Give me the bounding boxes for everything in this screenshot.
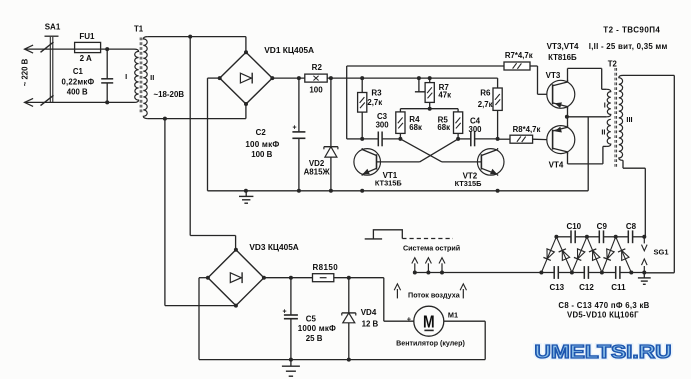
label VT3 VT4 group	[547, 42, 579, 51]
label T2 I	[604, 100, 606, 109]
svg-text:R7*4,7к: R7*4,7к	[505, 51, 533, 60]
svg-text:~18-20В: ~18-20В	[154, 90, 185, 99]
transformer T1 core	[140, 38, 142, 115]
label needle system	[403, 244, 460, 253]
watermark umeltsi.ru	[535, 342, 672, 362]
label C1 volt	[67, 88, 88, 97]
air flow arrow left	[394, 284, 400, 299]
svg-text:C13: C13	[549, 283, 564, 292]
wire VT4 collector to T2-II	[568, 146, 607, 164]
wire to VD3 top	[190, 37, 235, 250]
wire T2-III bottom to multiplier	[623, 160, 645, 237]
svg-text:2,7к: 2,7к	[367, 98, 382, 107]
capacitor C13	[554, 266, 558, 279]
label R6 value	[478, 100, 493, 109]
needle arrow 3	[439, 258, 445, 275]
svg-text:300: 300	[376, 120, 390, 129]
capacitor C4	[458, 132, 498, 147]
label C4	[470, 117, 481, 126]
svg-text:C11: C11	[611, 283, 626, 292]
label C2	[256, 128, 267, 137]
transistor VT4	[547, 125, 575, 154]
label VT1	[383, 171, 398, 180]
label FU1	[79, 32, 95, 41]
transformer T2 winding III	[619, 75, 623, 160]
wire feedback VT1-R7*	[347, 66, 504, 139]
air flow arrow right	[460, 284, 466, 299]
label C3	[377, 112, 388, 121]
transformer T2 winding II	[607, 119, 611, 146]
svg-text:VD1 КЦ405А: VD1 КЦ405А	[264, 45, 314, 55]
label VT4	[549, 161, 564, 170]
label R6	[480, 89, 491, 98]
svg-text:КТ315Б: КТ315Б	[455, 179, 483, 188]
svg-text:300: 300	[468, 125, 482, 134]
svg-text:0,22мкФ: 0,22мкФ	[61, 77, 94, 86]
label C5	[306, 314, 317, 323]
svg-text:2,7к: 2,7к	[478, 100, 493, 109]
wire cross C4-VT1 base	[377, 139, 459, 162]
wire ground rail	[208, 189, 589, 193]
label C3 value	[376, 120, 390, 129]
svg-text:I: I	[125, 72, 127, 81]
transformer T1 primary	[134, 49, 139, 102]
bridge rectifier VD3	[206, 248, 266, 308]
node VT1 collector	[360, 137, 364, 141]
svg-text:R8150: R8150	[313, 263, 339, 272]
diode VD8	[587, 237, 602, 273]
label C13	[549, 283, 564, 292]
label KT816B	[548, 53, 577, 62]
spark gap SG1	[642, 237, 648, 273]
capacitor C5	[284, 278, 298, 360]
arrow mains bottom	[25, 98, 34, 106]
wire VD3 plus	[264, 276, 313, 280]
needle electrode symbol	[365, 230, 453, 239]
svg-text:I: I	[604, 100, 606, 109]
transformer T1 secondary	[143, 37, 148, 119]
label T1	[134, 25, 144, 34]
resistor R8*	[498, 135, 533, 143]
svg-text:68к: 68к	[437, 123, 450, 132]
label R3 value	[367, 98, 382, 107]
svg-text:400 В: 400 В	[67, 88, 88, 97]
label 2A	[80, 54, 92, 63]
svg-text:VT3,VT4: VT3,VT4	[547, 42, 579, 51]
wire multiplier bottom line	[415, 271, 647, 275]
arrow VT3 emitter	[555, 102, 562, 108]
svg-text:КТ315Б: КТ315Б	[375, 179, 403, 188]
resistor R2	[305, 74, 327, 82]
wire common to ground rail	[587, 117, 589, 191]
node C3-R4	[398, 137, 402, 141]
node R5-C4	[456, 137, 460, 141]
wire T2-III top to right	[623, 75, 674, 272]
wire VD3 minus	[199, 278, 209, 360]
wire L top 220V	[25, 48, 135, 50]
capacitor C12	[584, 266, 588, 279]
svg-text:1000 мкФ: 1000 мкФ	[298, 324, 336, 333]
resistor R7	[425, 78, 434, 109]
stub near R7	[415, 78, 425, 92]
label VD1	[264, 45, 314, 55]
label fan	[396, 340, 465, 348]
label C2 volt	[251, 150, 272, 159]
capacitor C10	[571, 230, 575, 243]
arrow mains top	[25, 45, 34, 53]
svg-text:III: III	[626, 115, 632, 124]
wire T1 sec bottom	[148, 104, 246, 121]
svg-text:100: 100	[309, 86, 323, 95]
resistor R4	[396, 109, 405, 139]
label T2 type	[603, 26, 660, 35]
wire VD1 minus	[208, 78, 220, 191]
label 18-20V	[154, 90, 185, 99]
label R5	[438, 115, 449, 124]
fuse FU1	[75, 42, 101, 52]
transformer T2 winding I	[607, 89, 611, 117]
label R4	[409, 115, 420, 124]
label T1 winding II	[150, 73, 154, 82]
svg-text:II: II	[601, 127, 605, 136]
svg-text:SA1: SA1	[45, 23, 61, 32]
svg-text:R3: R3	[371, 88, 382, 97]
label T1 winding I	[125, 72, 127, 81]
label T2 III	[626, 115, 632, 124]
svg-text:C1: C1	[73, 67, 84, 76]
wire R7*-VT3 base	[530, 66, 547, 94]
node VT3-VT4 common	[565, 107, 569, 129]
svg-text:M1: M1	[448, 310, 458, 319]
label T2	[608, 60, 618, 69]
svg-text:UMELTSI.RU: UMELTSI.RU	[535, 342, 672, 362]
label VD4	[361, 308, 377, 317]
svg-text:~ 220 В: ~ 220 В	[21, 58, 30, 86]
svg-text:25 В: 25 В	[306, 334, 323, 343]
svg-text:C9: C9	[597, 222, 608, 231]
resistor R7*	[504, 62, 530, 70]
svg-text:Вентилятор (кулер): Вентилятор (кулер)	[396, 340, 465, 348]
svg-text:C2: C2	[256, 128, 267, 137]
capacitor C2	[292, 78, 305, 191]
label R3	[371, 88, 382, 97]
wire motor right	[444, 321, 485, 359]
label R7 value	[438, 90, 451, 99]
label C5 value	[298, 324, 336, 333]
wire R8 to motor	[334, 276, 414, 322]
zener VD4	[342, 278, 356, 360]
label M plus	[407, 314, 412, 323]
capacitor C1	[101, 47, 113, 104]
label SG1	[654, 248, 669, 257]
svg-text:VD5-VD10 КЦ106Г: VD5-VD10 КЦ106Г	[567, 311, 639, 320]
svg-text:100 В: 100 В	[251, 150, 272, 159]
svg-text:C12: C12	[579, 283, 594, 292]
svg-text:VT4: VT4	[549, 161, 564, 170]
bridge rectifier VD1	[218, 50, 275, 106]
capacitor C11	[616, 266, 620, 279]
svg-text:КТ816Б: КТ816Б	[548, 53, 577, 62]
label T2 winding data	[589, 42, 668, 51]
transistor VT1	[354, 148, 381, 176]
svg-text:Т2 - ТВС90П4: Т2 - ТВС90П4	[603, 26, 660, 35]
label VT1 type	[375, 179, 403, 188]
label T2 II	[601, 127, 605, 136]
svg-text:12 В: 12 В	[362, 320, 379, 329]
wire T1 sec top	[148, 35, 246, 53]
wire to VD3 bottom	[165, 119, 236, 306]
svg-text:II: II	[150, 73, 154, 82]
svg-text:VD4: VD4	[361, 308, 377, 317]
label VT2	[463, 172, 478, 181]
diode VD5	[541, 237, 556, 273]
wire R8*-VT4 base	[533, 138, 547, 140]
svg-text:47к: 47к	[438, 90, 451, 99]
label C8	[626, 222, 637, 231]
label VD5-VD10 type	[567, 311, 639, 320]
svg-text:T1: T1	[134, 25, 144, 34]
svg-text:VD3 КЦ405А: VD3 КЦ405А	[249, 242, 298, 252]
capacitor C9	[599, 230, 603, 243]
label VD2 type	[304, 168, 331, 177]
label R5 value	[437, 123, 450, 132]
wire N bottom 220V	[25, 101, 135, 103]
transformer T2 core	[615, 68, 617, 168]
zener VD2	[324, 78, 338, 191]
wire common to T2 mid	[567, 116, 607, 118]
resistor R8	[313, 274, 334, 282]
label C9	[597, 222, 608, 231]
svg-text:SG1: SG1	[654, 248, 669, 257]
resistor R5	[454, 109, 463, 139]
svg-text:R6: R6	[480, 89, 491, 98]
wire VT3 collector to T2-I	[568, 68, 607, 89]
svg-text:T2: T2	[608, 60, 618, 69]
capacitor C8	[628, 230, 632, 243]
svg-text:Поток воздуха: Поток воздуха	[408, 290, 461, 299]
ground symbol HV	[638, 273, 651, 285]
svg-text:R2: R2	[312, 63, 323, 72]
label SA1	[45, 23, 61, 32]
resistor R6	[493, 78, 502, 139]
svg-text:Система острий: Система острий	[403, 244, 460, 253]
svg-text:C5: C5	[306, 314, 317, 323]
svg-text:R8*4,7к: R8*4,7к	[513, 125, 541, 134]
wire cross C3-VT2 base	[400, 139, 481, 162]
label R2 value	[309, 86, 323, 95]
svg-text:2 A: 2 A	[80, 54, 92, 63]
svg-text:I,II - 25 вит, 0,35 мм: I,II - 25 вит, 0,35 мм	[589, 42, 668, 51]
svg-text:С8 - С13 470 пФ 6,3 кВ: С8 - С13 470 пФ 6,3 кВ	[558, 301, 649, 310]
ground symbol main	[239, 191, 253, 203]
label R2	[312, 63, 323, 72]
svg-text:C8: C8	[626, 222, 637, 231]
svg-text:100 мкФ: 100 мкФ	[245, 140, 279, 149]
label R4 value	[409, 123, 422, 132]
arrow VT4 emitter	[555, 127, 562, 133]
capacitor C3	[362, 132, 400, 147]
ground symbol fan	[282, 360, 300, 377]
label C5 volt	[306, 334, 323, 343]
svg-text:68к: 68к	[409, 123, 422, 132]
label C1	[73, 67, 84, 76]
svg-text:А815Ж: А815Ж	[304, 168, 331, 177]
label VD4 volt	[362, 320, 379, 329]
wire bottom rail	[199, 358, 485, 362]
transistor VT2	[477, 148, 504, 176]
label R7*	[505, 51, 533, 60]
label C2 value	[245, 140, 279, 149]
label VT2 type	[455, 179, 483, 188]
wire R4-R7-R5 top	[400, 107, 458, 111]
svg-text:+: +	[292, 125, 296, 132]
label R8*	[513, 125, 541, 134]
diode VD10	[616, 237, 632, 273]
svg-text:+: +	[407, 314, 412, 323]
needle arrow 2	[425, 258, 431, 275]
diode VD6	[556, 237, 572, 273]
label C11	[611, 283, 626, 292]
label C12	[579, 283, 594, 292]
transistor VT3	[547, 80, 575, 109]
wire VD1 plus rail	[272, 76, 497, 80]
motor M1	[414, 306, 444, 336]
wire multiplier top line	[554, 235, 646, 239]
label C10	[566, 222, 581, 231]
diode VD7	[572, 237, 587, 273]
label C5 plus	[282, 308, 286, 315]
svg-text:C10: C10	[566, 222, 581, 231]
label C4 value	[468, 125, 482, 134]
label M1	[448, 310, 458, 319]
svg-text:VT3: VT3	[546, 71, 561, 80]
resistor R3	[358, 78, 367, 139]
svg-text:+: +	[282, 308, 286, 315]
label VD2	[309, 159, 325, 168]
label VD3	[249, 242, 298, 252]
svg-text:FU1: FU1	[79, 32, 95, 41]
label VT3	[546, 71, 561, 80]
label R8	[313, 263, 339, 272]
label R7	[439, 83, 450, 92]
label C2 plus	[292, 125, 296, 132]
node VT2 collector	[496, 137, 500, 141]
diode VD9	[602, 237, 616, 273]
label C8-C13 value	[558, 301, 649, 310]
label ~220V	[21, 58, 30, 86]
svg-text:M: M	[423, 312, 435, 332]
switch SA1	[41, 36, 59, 105]
label C1 value	[61, 77, 94, 86]
needle arrow 1	[412, 258, 418, 275]
label air flow	[408, 290, 461, 299]
